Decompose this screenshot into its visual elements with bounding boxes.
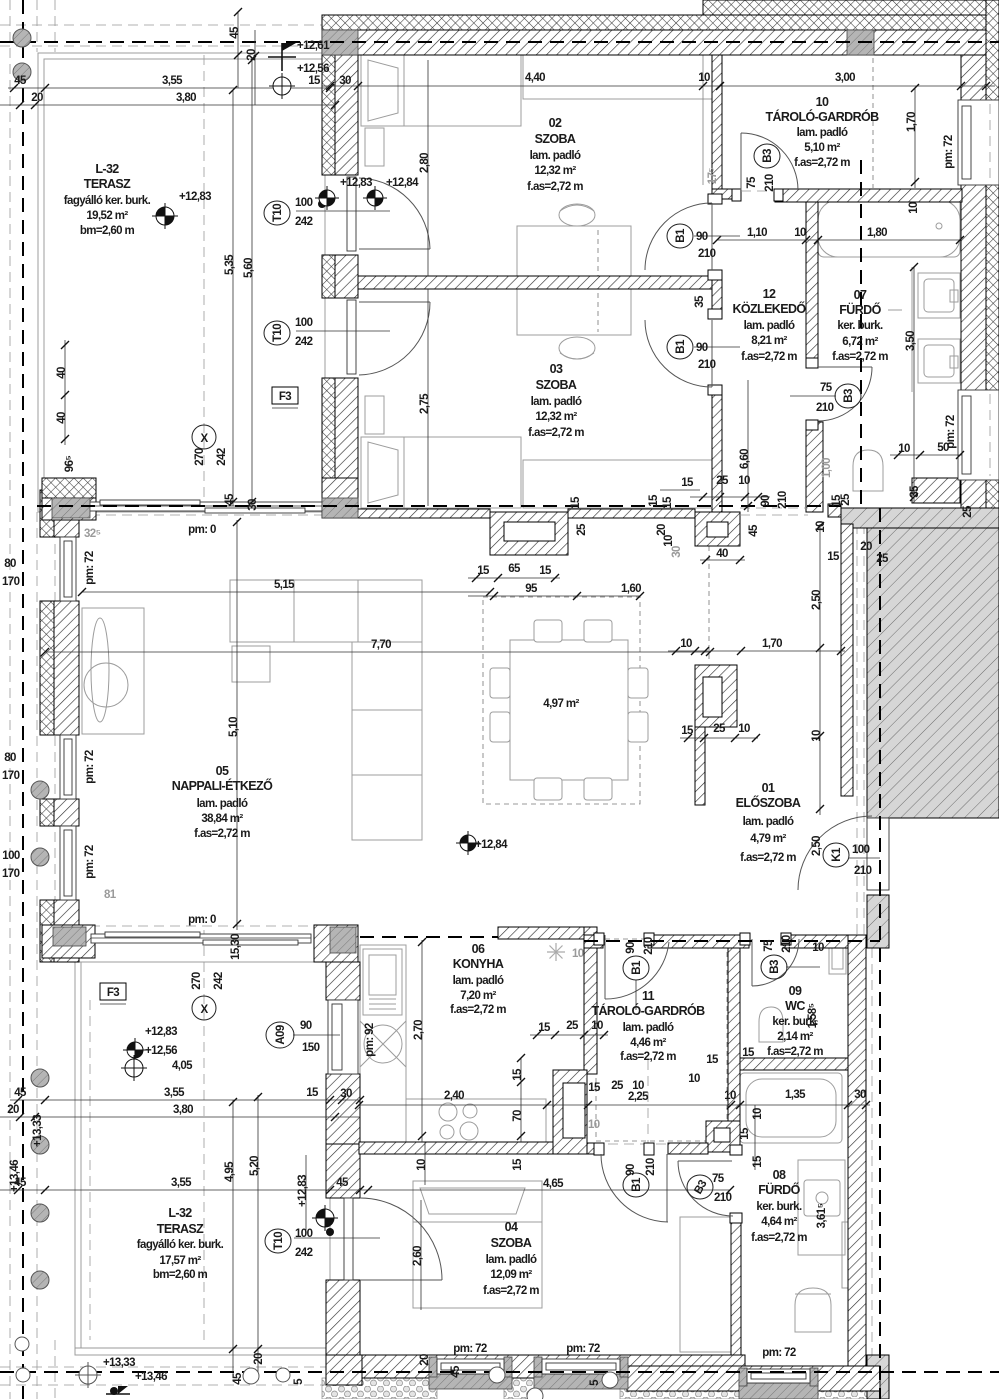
svg-text:75: 75: [712, 1173, 725, 1185]
svg-text:15: 15: [539, 565, 552, 577]
beam block sliding bottom east: [330, 927, 356, 953]
south wall of top band west run: [322, 509, 490, 518]
bed room04: [413, 1181, 542, 1308]
neighbour mass east of eloszoba: [867, 528, 999, 818]
dim line 7,70: [45, 651, 710, 653]
svg-text:90: 90: [696, 342, 708, 354]
svg-text:10: 10: [572, 948, 584, 960]
svg-text:210: 210: [714, 1192, 732, 1204]
konyha open boundary dashed: [360, 936, 584, 938]
dim vertical 5,10: [236, 520, 238, 930]
svg-text:+12,84: +12,84: [475, 839, 508, 851]
svg-text:10: 10: [591, 1020, 603, 1032]
svg-text:90: 90: [760, 495, 772, 507]
survey point terrace top: [152, 203, 178, 229]
peg markers left margin: [13, 29, 49, 1289]
sliding glass wall upper terrace: [82, 502, 322, 511]
dim line terrace 3,80: [0, 104, 335, 106]
svg-text:f.as=2,72 m: f.as=2,72 m: [483, 1285, 539, 1297]
svg-text:4,05: 4,05: [172, 1060, 193, 1072]
svg-text:lam. padló: lam. padló: [531, 396, 582, 408]
svg-text:10: 10: [811, 730, 823, 742]
south window 2: [534, 1357, 542, 1377]
svg-text:lam. padló: lam. padló: [744, 320, 795, 332]
survey point rooms west a: [315, 186, 339, 210]
bottom terrace border lines: [75, 962, 330, 1355]
dim marks 08 east: [754, 1105, 756, 1170]
bottom terrace axis: [89, 1000, 91, 1340]
svg-text:pm: 72: pm: 72: [943, 135, 955, 169]
szoba04 west wall upper: [326, 1144, 360, 1198]
terrace axis vertical: [203, 55, 205, 505]
nappali west wall segment 4: [40, 900, 54, 962]
svg-text:06: 06: [472, 942, 485, 956]
svg-text:15: 15: [588, 1082, 601, 1094]
door B1 room03: [711, 320, 713, 387]
svg-text:170: 170: [2, 576, 20, 588]
dim vertical entry 2,50/10/2,50: [819, 524, 821, 815]
svg-text:100: 100: [852, 844, 870, 856]
svg-text:L-32: L-32: [168, 1206, 192, 1220]
svg-text:pm: 72: pm: 72: [453, 1343, 487, 1355]
svg-text:19,52 m²: 19,52 m²: [86, 210, 128, 222]
svg-text:SZOBA: SZOBA: [536, 378, 577, 392]
east wall of rooms lower segment: [712, 387, 722, 512]
svg-text:4,95: 4,95: [224, 1161, 236, 1182]
svg-text:150: 150: [302, 1042, 320, 1054]
dim vertical 5,60: [251, 60, 253, 506]
svg-text:15: 15: [308, 75, 321, 87]
svg-text:15: 15: [752, 1155, 764, 1168]
towel rail furdo07: [888, 309, 902, 311]
survey cross circle bottom: [75, 1362, 101, 1388]
svg-text:lam. padló: lam. padló: [197, 798, 248, 810]
south wall eloszoba segment 2: [648, 935, 749, 948]
svg-text:15: 15: [706, 1054, 719, 1066]
svg-text:5,10 m²: 5,10 m²: [804, 142, 840, 154]
svg-text:90: 90: [300, 1020, 312, 1032]
svg-text:210: 210: [781, 935, 793, 953]
svg-text:96⁵: 96⁵: [64, 456, 76, 473]
svg-text:+13,46: +13,46: [135, 1371, 167, 1383]
tarolo11 closet dashed: [596, 939, 727, 1141]
svg-text:+12,84: +12,84: [386, 177, 419, 189]
circle tag A09: [266, 1022, 294, 1048]
survey circle bottom terrace: [121, 1055, 147, 1081]
dim vertical 2,60 room04: [420, 1200, 422, 1310]
kitchen sink: [364, 1025, 402, 1063]
svg-text:+12,61: +12,61: [297, 40, 330, 52]
wardrobe room04: [680, 1217, 732, 1352]
svg-text:FÜRDŐ: FÜRDŐ: [839, 302, 881, 317]
door B3 tarolo10: [740, 133, 742, 190]
svg-text:B3: B3: [762, 149, 774, 163]
door jamb marks: [594, 189, 818, 1223]
svg-text:01: 01: [762, 781, 775, 795]
svg-text:1,58⁵: 1,58⁵: [807, 1003, 819, 1028]
svg-text:10: 10: [738, 723, 750, 735]
svg-text:lam. padló: lam. padló: [743, 816, 794, 828]
svg-text:1,70: 1,70: [906, 112, 918, 132]
sideboard dashed line living: [708, 546, 710, 662]
survey flag bottom: [106, 1386, 130, 1395]
svg-text:5,20: 5,20: [249, 1156, 261, 1176]
door T10 room03: leaf and swing: [347, 300, 356, 374]
svg-text:15: 15: [681, 725, 694, 737]
neighbour cavity dash lower: [871, 948, 873, 1399]
basin 2 furdo07: [918, 339, 960, 383]
svg-text:WC: WC: [785, 999, 805, 1013]
west wall of rooms 02-03: segment above door T10: [322, 55, 335, 175]
lower sliding door end block SE: [314, 925, 358, 962]
svg-text:20: 20: [656, 524, 668, 536]
svg-text:10: 10: [416, 1159, 428, 1171]
wc09 south wall: [740, 1058, 848, 1070]
svg-text:65: 65: [508, 563, 521, 575]
svg-text:+12,56: +12,56: [145, 1045, 177, 1057]
svg-text:75: 75: [820, 382, 833, 394]
axis furdo07: [860, 160, 862, 505]
peg markers bottom: [15, 1337, 618, 1399]
svg-text:4,40: 4,40: [525, 72, 545, 84]
svg-text:242: 242: [295, 336, 313, 348]
svg-text:bm=2,60 m: bm=2,60 m: [80, 225, 135, 237]
svg-text:3,00: 3,00: [835, 72, 855, 84]
svg-text:TERASZ: TERASZ: [84, 177, 131, 191]
svg-text:5,35: 5,35: [224, 254, 236, 275]
dim vertical konyha 2,70: [421, 940, 423, 1142]
lower sliding door end block SW: [42, 925, 95, 958]
svg-text:L-32: L-32: [95, 162, 119, 176]
svg-text:45: 45: [229, 26, 241, 39]
property line south bold: [0, 1371, 999, 1373]
svg-text:4,65: 4,65: [543, 1178, 564, 1190]
svg-text:270: 270: [191, 972, 203, 990]
svg-text:X: X: [200, 433, 208, 445]
svg-text:4,46 m²: 4,46 m²: [630, 1037, 666, 1049]
dim line K1 leader: [849, 857, 880, 859]
svg-text:B1: B1: [675, 339, 687, 354]
svg-text:10: 10: [898, 443, 910, 455]
svg-text:3,61⁵: 3,61⁵: [816, 1203, 828, 1228]
property line mid bold: [37, 505, 841, 507]
svg-text:T10: T10: [272, 204, 284, 222]
sofa horizontal: [230, 580, 422, 642]
svg-text:+13,33: +13,33: [32, 1115, 44, 1147]
svg-text:2,40: 2,40: [444, 1090, 464, 1102]
svg-text:20: 20: [246, 49, 258, 61]
svg-text:02: 02: [549, 116, 562, 130]
svg-text:3,50: 3,50: [905, 331, 917, 351]
svg-text:2,25: 2,25: [628, 1091, 649, 1103]
leader B1 tarolo11: [635, 980, 637, 1010]
svg-text:100: 100: [2, 850, 20, 862]
dim vertical 15/70: [520, 1058, 522, 1142]
svg-text:f.as=2,72 m: f.as=2,72 m: [450, 1004, 506, 1016]
junction pillar 11/04/08: [706, 1121, 740, 1152]
svg-text:pm: 72: pm: 72: [84, 845, 96, 879]
svg-text:3,55: 3,55: [171, 1177, 192, 1189]
dim line bath07 1,10/10/1,80: [717, 239, 960, 241]
svg-text:04: 04: [505, 1220, 518, 1234]
closet dash tarolo10: [872, 58, 874, 188]
svg-text:20: 20: [7, 1104, 19, 1116]
bathtub furdo08: [740, 1073, 842, 1143]
svg-text:K1: K1: [831, 847, 843, 862]
svg-text:+13,46: +13,46: [9, 1160, 21, 1192]
svg-text:08: 08: [773, 1168, 786, 1182]
door B1 room02: [711, 203, 713, 270]
svg-text:170: 170: [2, 868, 20, 880]
svg-text:f.as=2,72 m: f.as=2,72 m: [794, 157, 850, 169]
desk room02: [517, 226, 631, 276]
svg-text:15: 15: [477, 565, 490, 577]
chair room03: [559, 337, 595, 359]
door B3 furdo07: [818, 366, 872, 368]
cooktop: [439, 1103, 457, 1121]
dining dashed zone: [483, 597, 640, 804]
dim vertical 1,70 east: [914, 88, 916, 188]
circle tag B1 szoba04: [623, 1173, 649, 1197]
eloszoba cavity dashes: [856, 508, 858, 948]
svg-text:242: 242: [213, 972, 225, 990]
svg-text:242: 242: [216, 448, 228, 466]
svg-text:lam. padló: lam. padló: [486, 1254, 537, 1266]
south window 1: [429, 1357, 437, 1377]
svg-text:210: 210: [698, 359, 716, 371]
svg-text:40: 40: [56, 367, 68, 379]
dim line kozlekedo foot: [690, 496, 770, 498]
svg-text:210: 210: [764, 174, 776, 192]
site boundary light west 3: [54, 0, 56, 52]
svg-text:03: 03: [550, 362, 563, 376]
svg-text:1,80: 1,80: [867, 227, 887, 239]
svg-text:SZOBA: SZOBA: [491, 1236, 532, 1250]
star symbol konyha: [547, 943, 565, 961]
sofa side table: [232, 646, 270, 682]
svg-text:15: 15: [512, 1068, 524, 1081]
svg-text:bm=2,60 m: bm=2,60 m: [153, 1269, 208, 1281]
door B1 szoba04: [666, 1154, 668, 1222]
svg-text:30: 30: [340, 1088, 352, 1100]
svg-text:6,60: 6,60: [739, 449, 751, 469]
svg-text:f.as=2,72 m: f.as=2,72 m: [620, 1051, 676, 1063]
dim line 4,65: [360, 1189, 730, 1191]
svg-text:2,14 m²: 2,14 m²: [777, 1031, 813, 1043]
property line north bold: [0, 41, 999, 43]
svg-text:15: 15: [648, 494, 660, 507]
dim vertical rooms 2,80/2,75: [427, 60, 429, 276]
svg-text:5,15: 5,15: [274, 579, 295, 591]
circle tag B3 furdo08: [687, 1175, 713, 1199]
dim line pillar2 lower cluster: [680, 737, 758, 739]
svg-text:1,70: 1,70: [762, 638, 782, 650]
svg-text:+12,83: +12,83: [179, 191, 211, 203]
svg-text:210: 210: [816, 402, 834, 414]
svg-text:KÖZLEKEDŐ: KÖZLEKEDŐ: [732, 301, 806, 316]
chair room02: [559, 204, 595, 226]
door T10 room02: leaf and swing: [347, 177, 356, 251]
svg-text:fagyálló ker. burk.: fagyálló ker. burk.: [64, 195, 151, 207]
east exterior wall outer strip: [986, 0, 999, 510]
pillar with duct 2: [695, 512, 740, 546]
svg-text:10: 10: [908, 202, 920, 214]
furdo07 counter: [911, 267, 913, 392]
svg-text:7,20 m²: 7,20 m²: [460, 990, 496, 1002]
south wall tarolo11 segment west: [359, 1142, 553, 1154]
bathtub furdo07: [818, 200, 960, 257]
svg-text:B1: B1: [631, 1177, 643, 1192]
svg-text:4,64 m²: 4,64 m²: [761, 1216, 797, 1228]
svg-text:70: 70: [512, 1110, 524, 1122]
chairs dining right small marks: [628, 668, 648, 698]
svg-text:f.as=2,72 m: f.as=2,72 m: [767, 1046, 823, 1058]
door B3 wc09: [751, 939, 753, 986]
east wall of rooms middle segment: [712, 272, 722, 318]
svg-text:90: 90: [696, 231, 708, 243]
svg-text:pm: 72: pm: 72: [762, 1347, 796, 1359]
svg-text:B3: B3: [769, 960, 781, 974]
north exterior wall: masonry band: [322, 30, 986, 55]
circle tag T10 upper: [264, 201, 290, 225]
svg-text:45: 45: [450, 1365, 462, 1378]
nappali west wall segment 2: [40, 601, 54, 735]
axis tarolo11: [647, 1060, 649, 1155]
svg-text:pm: 72: pm: 72: [945, 415, 957, 449]
svg-text:30: 30: [247, 499, 259, 511]
dim vertical 5,20: [257, 1095, 259, 1372]
svg-text:12,32 m²: 12,32 m²: [534, 165, 576, 177]
svg-text:2,70: 2,70: [413, 1020, 425, 1040]
svg-text:10: 10: [752, 1108, 764, 1120]
dim line 10/1,70 eloszoba: [668, 650, 845, 652]
chairs dining left: [490, 668, 510, 698]
svg-text:B1: B1: [631, 960, 643, 975]
leader T10 bottom: [294, 1237, 380, 1239]
svg-text:1,60: 1,60: [621, 583, 641, 595]
bed room03: [361, 437, 521, 508]
window east top 2: [958, 390, 999, 480]
svg-text:210: 210: [854, 865, 872, 877]
window west living 1: [60, 537, 76, 601]
tarolo11 west recess block: [553, 1070, 587, 1154]
toilet furdo07: [853, 450, 883, 491]
svg-text:20: 20: [419, 1354, 431, 1366]
neighbour block bottom: [867, 1355, 889, 1399]
circle tag B1 tarolo11: [623, 956, 649, 980]
svg-text:38,84 m²: 38,84 m²: [201, 813, 243, 825]
nightstand room03: [365, 396, 384, 434]
property line north light: [0, 24, 703, 26]
pm0 line bottom: [90, 925, 330, 927]
dining table: [510, 640, 628, 780]
svg-text:12,09 m²: 12,09 m²: [490, 1269, 532, 1281]
door B3 furdo08: [678, 1160, 732, 1162]
svg-text:4,97 m²: 4,97 m²: [543, 698, 579, 710]
svg-text:15: 15: [306, 1087, 319, 1099]
property dash eloszoba south: [584, 940, 880, 942]
svg-text:2,80: 2,80: [419, 153, 431, 173]
survey cross top: [268, 43, 296, 71]
svg-text:f.as=2,72 m: f.as=2,72 m: [194, 828, 250, 840]
svg-text:45: 45: [14, 1087, 27, 1099]
svg-text:45: 45: [232, 1372, 244, 1385]
svg-text:10: 10: [632, 1080, 644, 1092]
circle tag K1: [823, 843, 849, 867]
survey point living: [456, 831, 480, 855]
svg-text:X: X: [200, 1004, 208, 1016]
svg-text:25: 25: [566, 1020, 579, 1032]
svg-text:242: 242: [295, 1247, 313, 1259]
south window furdo08: [739, 1368, 747, 1386]
nappali west wall segment 1: [40, 490, 54, 537]
svg-text:pm: 72: pm: 72: [84, 750, 96, 784]
svg-text:170: 170: [2, 770, 20, 782]
north exterior wall: upper insulation step: [703, 0, 986, 15]
svg-text:KONYHA: KONYHA: [453, 957, 504, 971]
south wall eloszoba segment 3: [785, 935, 848, 948]
svg-text:45: 45: [748, 524, 760, 537]
pm0 line top: [90, 514, 330, 516]
svg-text:f.as=2,72 m: f.as=2,72 m: [751, 1232, 807, 1244]
dim lines table 65/95: [468, 577, 560, 579]
svg-text:pm: 92: pm: 92: [364, 1023, 376, 1057]
circle tag B3 wc09: [761, 955, 787, 979]
circle tag X terrace top: [192, 425, 216, 449]
leader T10 top: [296, 210, 390, 212]
svg-text:10: 10: [724, 1090, 736, 1102]
south wall of top band middle run: [568, 509, 695, 518]
svg-text:17⁵: 17⁵: [707, 168, 719, 185]
svg-text:25: 25: [876, 553, 889, 565]
svg-text:lam. padló: lam. padló: [623, 1022, 674, 1034]
svg-text:F3: F3: [107, 987, 119, 999]
svg-text:270: 270: [194, 448, 206, 466]
eloszoba east inner wall leaf: [841, 524, 853, 796]
leader A09: [293, 1034, 340, 1036]
circle tag B1 room02: [667, 224, 693, 248]
site boundary light west 1: [9, 0, 11, 1399]
svg-text:f.as=2,72 m: f.as=2,72 m: [740, 852, 796, 864]
wc09 corner unit: [829, 939, 846, 974]
furdo08 west wall: [731, 1216, 741, 1360]
dim line bottom terrace 3,55 second: [0, 1189, 360, 1191]
east wall of rooms 02-03 upper segment: [712, 55, 722, 203]
neighbour block below entry door: [867, 895, 889, 948]
terrace top border lines: [38, 53, 325, 512]
circle tag T10 lower: [264, 321, 290, 345]
svg-text:15: 15: [512, 1158, 524, 1171]
dim vertical 4,95: [232, 1100, 234, 1372]
svg-text:09: 09: [789, 984, 802, 998]
svg-text:210: 210: [777, 491, 789, 509]
svg-text:1,10: 1,10: [747, 227, 767, 239]
svg-text:90: 90: [625, 1164, 637, 1176]
nappali/eloszoba pillar: [695, 665, 737, 727]
svg-text:NAPPALI-ÉTKEZŐ: NAPPALI-ÉTKEZŐ: [172, 778, 273, 793]
svg-text:pm: 0: pm: 0: [188, 524, 216, 536]
svg-text:80: 80: [4, 752, 16, 764]
dim line terrace 3,55: [8, 87, 330, 89]
svg-text:T10: T10: [273, 1232, 285, 1250]
dim line 5,15: [82, 591, 490, 593]
circle tag B3 tarolo10: [754, 144, 780, 168]
chairs dining bottom: [534, 778, 562, 800]
locating line room02 east: [702, 55, 704, 185]
window east top 1: [958, 100, 999, 185]
svg-text:07: 07: [854, 288, 867, 302]
svg-text:10: 10: [812, 942, 824, 954]
